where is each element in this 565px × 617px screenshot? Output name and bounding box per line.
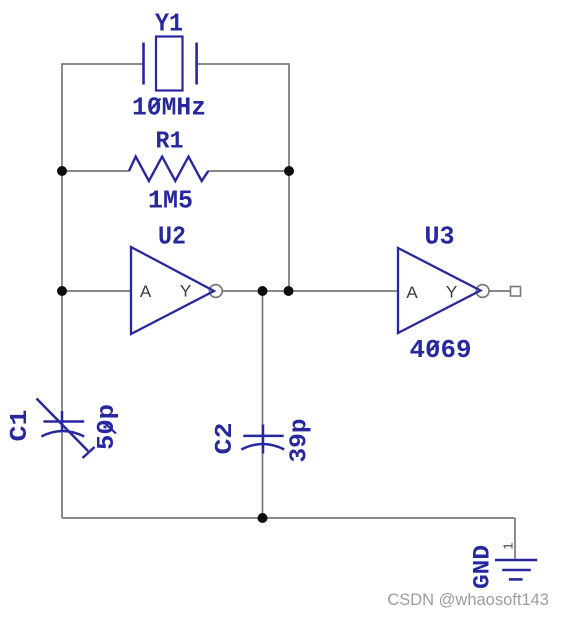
wire U3 output — [489, 290, 511, 292]
wire U2 output to U3 input — [223, 290, 398, 292]
wire crystal to right rail — [197, 63, 290, 65]
node R1 right junction — [284, 166, 294, 176]
ground — [495, 560, 537, 579]
wire ground drop — [514, 518, 516, 560]
wire bottom rail — [62, 517, 515, 519]
svg-text:Y: Y — [180, 282, 191, 301]
crystal Y1 — [144, 37, 197, 91]
svg-text:39p: 39p — [287, 419, 314, 463]
op-amp U2 inverter triangle — [131, 247, 214, 334]
op-amp U3 inverter triangle — [398, 248, 481, 333]
bubble at U3 output — [476, 285, 489, 298]
svg-text:4069: 4069 — [410, 335, 472, 365]
wire left rail vertical — [61, 64, 63, 518]
svg-text:Y: Y — [446, 283, 457, 302]
svg-text:R1: R1 — [156, 129, 184, 156]
output terminal square — [511, 287, 521, 297]
node U2 input junction — [57, 286, 67, 296]
wire C2 branch vertical — [262, 291, 264, 518]
svg-text:U2: U2 — [158, 222, 186, 252]
capacitor C2 — [241, 425, 284, 454]
svg-text:CSDN @whaosoft143: CSDN @whaosoft143 — [387, 591, 549, 609]
slash of zero in 50p — [103, 422, 116, 434]
slash of zero in 10MHz — [150, 99, 161, 112]
node R1 left junction — [57, 166, 67, 176]
resistor R1 — [129, 157, 208, 181]
node C2 top junction — [258, 286, 268, 296]
wire R1 left lead — [62, 170, 129, 172]
wire right rail vertical — [288, 64, 290, 291]
svg-text:U3: U3 — [425, 222, 455, 252]
node C2 bottom junction — [258, 513, 268, 523]
svg-text:GND: GND — [470, 545, 496, 589]
wire U2 input — [62, 290, 131, 292]
wire R1 right lead — [208, 170, 289, 172]
svg-text:1M5: 1M5 — [148, 186, 193, 216]
node right rail junction — [284, 286, 294, 296]
bubble at U2 output — [209, 285, 222, 298]
svg-text:Y1: Y1 — [155, 9, 183, 39]
wire top left to crystal — [61, 63, 143, 65]
svg-text:10MHz: 10MHz — [132, 93, 206, 123]
capacitor C1 variable — [37, 399, 95, 459]
svg-text:A: A — [140, 282, 152, 301]
slash of zero in 4069 — [428, 341, 440, 354]
svg-text:A: A — [406, 283, 418, 302]
svg-text:C1: C1 — [7, 410, 34, 442]
svg-text:C2: C2 — [212, 423, 239, 455]
svg-text:1: 1 — [501, 542, 516, 549]
